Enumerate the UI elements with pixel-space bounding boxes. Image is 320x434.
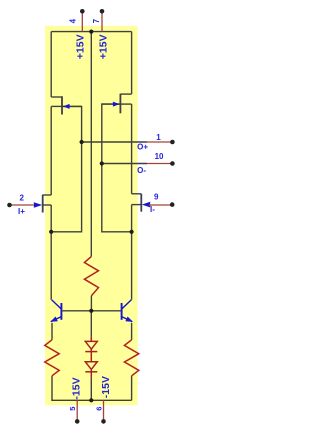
wire bottom rail [51,399,131,401]
wire left rail lower [50,205,52,300]
highlight region (yellow) [45,26,138,405]
junction node base bus [89,309,93,313]
wire Q2 drain stub [120,93,131,95]
wire top rail [51,31,131,33]
svg-text:6: 6 [95,407,104,411]
transistor Q2 (right input JFET) [102,94,121,114]
wire right rail upper [131,32,133,95]
wire Q2 source stub [120,103,131,105]
junction node bottom rail [89,398,93,402]
pin 10 (O- output) [147,161,175,166]
wire R3 bottom lead [131,376,133,401]
svg-text:I+: I+ [18,207,25,216]
junction node O- [100,161,104,165]
wire Q3 source stub [43,204,52,206]
pin 6 (-15V supply) [101,400,106,423]
wire diode chain bottom lead [90,378,92,400]
pin 1 (O+ output) [147,140,175,145]
wire left rail mid [50,106,52,195]
resistor R1 (left emitter) [45,340,59,376]
pin 9 (I- input) [149,202,175,207]
wire center bias rail [90,32,92,257]
transistor Q6 (right output BJT) [122,300,133,322]
svg-text:9: 9 [154,193,159,202]
wire Q4 source stub [132,204,142,206]
wire diode chain top lead [90,311,92,337]
pin 7 (+15V supply) [100,9,105,32]
wire right rail lower [131,205,133,300]
wire O- out [102,163,147,165]
pin 5 (-15V supply) [75,400,80,423]
svg-text:O-: O- [137,166,146,175]
svg-text:-15V: -15V [100,376,112,398]
svg-text:-15V: -15V [70,377,82,399]
diode D2 [85,362,97,378]
wire Q4 drain stub [132,193,142,195]
junction node right rail [130,230,134,234]
svg-text:1: 1 [156,133,161,142]
wire O+ return [51,142,81,232]
svg-text:+15V: +15V [75,34,87,59]
wire left emitter drop [51,323,53,340]
wire resistor R2 bottom lead [90,296,92,311]
resistor R2 (bias, center) [84,256,98,295]
svg-text:2: 2 [20,193,25,202]
svg-text:O+: O+ [137,143,148,152]
resistor R3 (right emitter) [124,340,138,376]
transistor Q5 (left output BJT) [50,300,61,322]
svg-text:4: 4 [69,18,78,23]
transistor Q4 (right cascode JFET) [141,194,150,212]
wire Q1 drain stub [51,96,62,98]
transistor Q1 (left input JFET) [62,96,82,114]
junction node top center [89,30,93,34]
wire R1 bottom lead [51,376,53,401]
wire left rail upper [50,32,52,97]
wire O- gate drop [102,104,120,163]
svg-text:7: 7 [92,18,101,23]
pin 4 (+15V supply) [80,9,85,32]
wire base bus [62,310,121,312]
wire O+ out [82,141,147,143]
pin 2 (I+ input) [7,203,33,208]
wire Q1 source stub [51,105,62,107]
junction node left rail [49,230,53,234]
wire Q3 drain stub [43,194,52,196]
junction node O+ [80,140,84,144]
svg-text:+15V: +15V [98,34,110,59]
wire right emitter drop [131,323,133,340]
svg-text:5: 5 [68,407,77,411]
diode D1 [85,337,97,362]
transistor Q3 (left cascode JFET) [34,195,43,213]
svg-text:I-: I- [150,205,155,214]
svg-text:10: 10 [155,152,164,161]
wire O- return [102,164,132,232]
wire O+ gate drop [62,106,82,142]
wire right rail mid [131,104,133,194]
